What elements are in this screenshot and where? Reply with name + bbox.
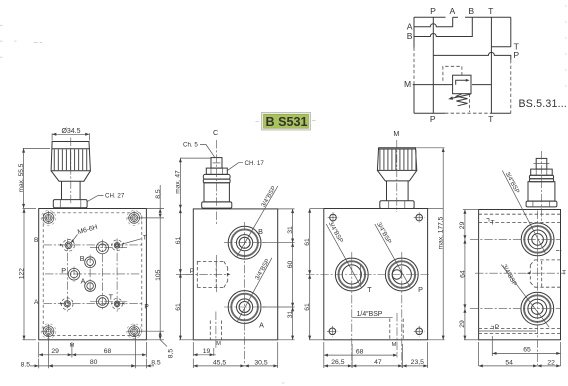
knob1 knurl ribs [53,149,55,170]
wire P out line with hop [433,52,511,60]
svg-text:B: B [80,254,85,263]
block2 top edge extension [278,208,295,210]
bolt hole view3 4 [416,328,423,335]
centerline TP horizontal view3 [306,274,430,276]
svg-text:31: 31 [287,226,294,234]
svg-text:29: 29 [459,320,466,328]
svg-text:1/4″BSP: 1/4″BSP [357,311,383,318]
knob1 centerline [70,138,72,206]
bolt hole 1 [43,213,54,224]
svg-text:29: 29 [459,222,466,230]
svg-text:8.5: 8.5 [21,362,31,369]
port B view2 circles [228,226,261,259]
svg-text:M: M [70,343,75,349]
view4 bottom edge extension [464,339,479,341]
port P view3 [385,258,418,291]
screw2 hex CH17 [206,168,227,174]
screw4 flange [526,201,557,207]
dim dia34.5 line [52,133,89,135]
centerline T horizontal view4 [470,238,561,240]
centerline B horizontal view2 [224,242,266,244]
dim max177.5 line [442,148,444,340]
screw4 tip [536,158,547,169]
svg-text:45,5: 45,5 [213,359,226,366]
port T bottom view1 [96,295,108,307]
wire T box [491,46,510,48]
svg-text:31: 31 [287,311,294,319]
svg-text:68: 68 [104,348,112,355]
port B view1 [85,257,96,268]
svg-text:3/4″BSP: 3/4″BSP [260,185,278,209]
schematic enclosure left edge [413,17,415,47]
block4 body [479,210,561,340]
svg-text:80: 80 [90,359,98,366]
knob1 stem [62,181,81,199]
centerline side port T view4 [475,272,566,274]
centerline col M6 view1 [67,239,69,312]
svg-text:61: 61 [175,303,182,311]
svg-text:19: 19 [203,348,211,355]
knob3 rib shoulder [378,148,416,150]
centerline BA vertical view2 [244,222,246,365]
screw4 body [528,182,555,201]
bolt hole 4 [129,326,140,337]
centerline P horizontal view4 [470,308,561,310]
svg-text:P: P [430,114,436,124]
hidden port M view3 [389,319,391,340]
bolt hole 2 [129,213,140,224]
bolt hole view3 1 [330,214,337,221]
svg-text:61: 61 [304,303,311,311]
relief valve spring [456,94,467,106]
knob3 outline [377,148,416,171]
svg-text:68: 68 [356,348,364,355]
svg-text:8,5: 8,5 [155,189,162,199]
knob3 hex nut [380,201,414,209]
schematic enclosure right edge [510,17,512,47]
svg-text:47: 47 [374,359,382,366]
svg-text:M: M [392,342,397,348]
view2 bottom dims extensions [192,342,194,356]
port T counterbore top [96,242,108,254]
schematic enclosure top edge [414,16,446,18]
screw2 collar [203,174,230,179]
centerline col BA view1 [89,255,91,294]
knob1 rib shoulder [52,148,90,150]
svg-text:CH. 17: CH. 17 [245,160,265,167]
relief valve pilot dashed box [443,66,462,81]
bolt hole 3 [43,326,54,337]
port T view4 circles [521,223,554,256]
screw2 flange [202,202,232,208]
svg-text:T: T [562,269,566,276]
view3 bottom extensions [323,342,325,368]
screw4 collar [529,175,553,179]
centerline col P view1 [73,267,75,282]
hidden P channel view4 [479,328,561,330]
hidden port M dashed view2 [209,321,211,340]
screw2 body [204,183,229,202]
centerline A horizontal view2 [224,306,266,308]
svg-text:P: P [190,268,195,275]
view4 bottom extensions [478,342,480,366]
knob1 hex nut CH27 [53,200,87,208]
svg-text:61: 61 [304,238,311,246]
svg-text:105: 105 [155,269,162,281]
svg-text:26,5: 26,5 [331,359,344,366]
svg-text:P: P [495,324,500,331]
bolt hole view3 3 [329,328,336,335]
svg-text:Ch. 5: Ch. 5 [183,142,198,149]
centerline mid row view1 [45,273,141,275]
view3 left dim column [309,209,311,340]
port A view2 circles [228,291,261,324]
screw2 centerline [216,140,218,224]
svg-text:T: T [488,114,494,124]
wire A line with hop [414,17,453,26]
screw4 hex [531,169,553,175]
block1 body [39,209,147,340]
port A view1 [85,281,96,292]
relief valve adjust arrow [452,94,471,98]
relief valve drain dashed [469,94,471,112]
svg-text:BS.5.31...: BS.5.31... [519,98,568,110]
svg-text:8,5: 8,5 [168,349,175,359]
wire M line [413,84,453,86]
svg-text:23,5: 23,5 [411,359,424,366]
block3 body [324,209,428,340]
hidden T channel view4 [479,213,561,215]
svg-text:B: B [407,31,413,41]
knob3 centerline [396,140,398,212]
port centerline top row [44,244,143,246]
wire T vertical [490,17,492,113]
centerline P vertical view3 [401,252,403,368]
block3 edge extensions [310,208,324,210]
knob3 taper [377,170,416,181]
centerline P vertical view2 [215,255,217,293]
svg-text:T: T [488,6,494,16]
svg-text:B: B [34,237,39,244]
badge BS531 [262,113,311,131]
svg-text:M: M [216,341,221,347]
screw4 centerline [540,151,542,222]
view1 bottom extension lines [38,342,40,358]
port plug bottom left [64,301,70,307]
view1 right extension lines [146,208,164,210]
centerline bottom row view1 [44,302,143,304]
svg-text:T: T [367,285,372,294]
dim 8.5 bottom right hook view1 [160,340,167,347]
port M6 gauge [65,242,72,249]
relief valve flow arrow [456,80,468,84]
knob1 taper [51,171,90,181]
svg-text:22: 22 [547,359,555,366]
port T view3 [335,258,368,291]
svg-text:61: 61 [175,237,182,245]
svg-text:A: A [259,321,264,330]
svg-text:P: P [513,50,519,60]
schematic enclosure bottom edge [414,112,445,114]
wire P vertical [432,17,434,113]
dim 122 line [23,209,25,340]
centerline M view2 [215,312,217,348]
svg-text:P: P [430,6,436,16]
hidden side port T view4 [535,259,561,261]
svg-text:60: 60 [287,261,294,269]
port P view4 circles [521,292,554,325]
svg-text:A: A [450,6,456,16]
centerline col T view1 [101,240,103,311]
knob1 outline [51,142,90,171]
svg-text:3/4″BSP: 3/4″BSP [504,171,521,195]
svg-text:M: M [393,129,399,138]
dim max47+61+61 column [179,158,181,340]
block2 bottom edge extension [179,339,295,341]
block2 body [193,209,277,340]
screw2 ring [203,179,230,183]
screw2 tip [211,158,222,169]
svg-text:A: A [34,299,39,306]
centerline TP vertical view4 [537,211,539,366]
svg-text:M6-6H: M6-6H [77,224,99,236]
bolt hole view3 2 [416,214,423,221]
svg-text:A: A [81,276,86,285]
svg-text:T: T [490,219,494,226]
svg-text:M: M [404,79,411,89]
view4 left dim column [464,210,466,340]
dim max55.5 line [23,148,25,208]
svg-text:A: A [407,21,413,31]
port plug bottom right [114,301,120,307]
centerline col plugs view1 [116,239,118,312]
knob3 knurl ribs [379,150,381,170]
svg-text:C: C [213,128,218,137]
svg-text:P: P [61,266,66,275]
svg-text:B: B [468,6,474,16]
svg-text:3/4″BSP: 3/4″BSP [375,221,392,245]
centerline T vertical view3 [351,252,353,368]
knob3 stem [387,181,409,201]
centerline M view3 [396,313,398,358]
svg-text:54: 54 [505,359,513,366]
svg-text:P: P [144,303,149,310]
port plug top right [114,243,120,249]
block4 top edge extension [463,209,479,211]
svg-text:65: 65 [523,347,531,354]
svg-text:3/4″BSP: 3/4″BSP [254,258,272,282]
relief valve V1 body [453,75,471,94]
screw4 ring [529,179,553,182]
svg-text:T: T [109,293,114,302]
port P view1 [68,268,80,280]
hidden port P dashed view2 [196,261,198,287]
block1 gasket dashed outline [43,213,142,336]
centerline P horizontal view2 [185,273,229,275]
svg-text:P: P [418,285,423,294]
svg-text:64: 64 [459,270,466,278]
svg-text:CH. 27: CH. 27 [105,192,125,199]
view2 right dim column [292,209,294,340]
svg-text:B: B [258,227,263,236]
svg-text:B S531: B S531 [265,115,307,129]
svg-text:30,5: 30,5 [254,359,267,366]
svg-text:29: 29 [51,348,59,355]
wire B line with hop [414,17,472,36]
svg-text:T: T [143,234,147,241]
